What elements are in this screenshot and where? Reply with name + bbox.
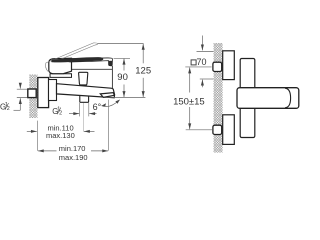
svg-text:6°: 6°	[93, 102, 102, 112]
svg-text:2: 2	[7, 106, 10, 112]
svg-text:max.190: max.190	[59, 153, 88, 162]
svg-text:70: 70	[197, 57, 207, 67]
svg-text:max.130: max.130	[46, 131, 75, 140]
svg-text:2: 2	[59, 110, 62, 116]
svg-text:min.170: min.170	[59, 144, 86, 153]
svg-text:90: 90	[117, 72, 128, 83]
svg-text:150±15: 150±15	[173, 96, 205, 107]
svg-text:125: 125	[135, 66, 151, 77]
